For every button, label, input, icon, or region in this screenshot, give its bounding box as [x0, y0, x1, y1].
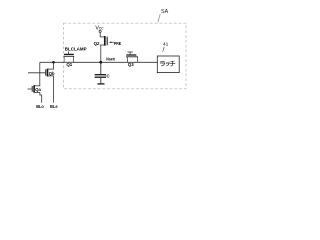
wire main horizontal node Nsen [40, 61, 158, 63]
transistor Q3 drain arm [137, 57, 139, 63]
svg-text:PRE: PRE [114, 41, 121, 46]
transistor Q1 channel bar [64, 55, 75, 57]
label BLCLAMP [65, 46, 87, 51]
wire Qa source to BLo with jog [40, 92, 42, 102]
wire Vcc to Q2 drain [99, 33, 101, 37]
Vcc terminal circle [99, 30, 101, 32]
svg-text:BLe: BLe [50, 104, 58, 109]
label Nsen [106, 57, 115, 62]
transistor Q3 channel bar [126, 56, 138, 58]
transistor Q2 gate bar [106, 37, 108, 46]
transistor Qb source arm [48, 75, 54, 77]
svg-text:41: 41 [163, 42, 169, 48]
transistor Qb channel bar [47, 69, 49, 77]
junction dot at Q2 source / capacitor [99, 61, 102, 64]
transistor Q2 drain arm [100, 36, 105, 38]
label PRE [114, 41, 121, 46]
transistor Q3 gate lead [129, 52, 131, 55]
transistor Q2 source arm [100, 44, 105, 46]
PRE gate arrow [109, 42, 114, 44]
svg-text:BLo: BLo [36, 104, 44, 109]
capacitor C top plate [95, 74, 106, 76]
transistor Qa gate bar [31, 86, 33, 92]
transistor Qa source arm [34, 91, 40, 93]
transistor Q1 drain arm [73, 56, 75, 62]
svg-text:SA: SA [161, 9, 169, 15]
wire Nsen junction down to Qb drain [53, 62, 55, 69]
transistor Q1 gate lead [68, 52, 70, 55]
Vcc label [95, 25, 104, 31]
label BLe [50, 104, 58, 109]
svg-text:Q2: Q2 [94, 41, 100, 46]
label Q3 [128, 62, 134, 67]
transistor Qa gate lead [28, 88, 32, 90]
capacitor C bottom lead [100, 78, 102, 84]
label Q1 [66, 62, 72, 67]
transistor Q2 channel bar [104, 36, 106, 46]
transistor Qb gate bar [45, 69, 47, 75]
transistor Q1 source arm [63, 56, 65, 62]
label SA [161, 9, 169, 15]
wire Qb source to BLe [53, 76, 55, 103]
label Qb [49, 71, 55, 76]
label BLo [36, 104, 44, 109]
transistor Qa channel bar [33, 85, 35, 93]
latch box 41 [157, 56, 179, 73]
label C [106, 73, 110, 78]
transistor Qb gate lead [28, 72, 45, 74]
svg-text:Q1: Q1 [66, 62, 72, 67]
transistor Qb drain arm [48, 68, 54, 70]
svg-text:Nsen: Nsen [106, 57, 115, 62]
leader line for 41 [163, 47, 165, 52]
transistor Q1 gate bar [64, 53, 74, 55]
transistor Qa drain arm [34, 85, 40, 87]
capacitor C top lead [100, 62, 102, 74]
label Qa [35, 87, 41, 92]
svg-text:Qb: Qb [49, 71, 55, 76]
capacitor C bottom plate [95, 76, 106, 78]
leader line for SA label [158, 14, 160, 22]
ground bar [98, 83, 105, 85]
svg-text:Qa: Qa [35, 87, 41, 92]
wire left branch down (BLo column) [39, 62, 41, 86]
wire Q2 source down to node Nsen [100, 45, 102, 62]
transistor Q3 gate terminal crossbar [128, 51, 133, 53]
dashed box SA boundary [64, 23, 187, 89]
svg-text:Q3: Q3 [128, 62, 134, 67]
latch text (katakana) [160, 61, 175, 66]
label Q2 [94, 41, 100, 46]
transistor Q3 gate bar [126, 54, 136, 56]
svg-text:BLCLAMP: BLCLAMP [65, 46, 87, 51]
transistor Q3 source arm [127, 57, 129, 63]
junction dot at BLe branch [52, 61, 55, 64]
label 41 [163, 42, 169, 48]
